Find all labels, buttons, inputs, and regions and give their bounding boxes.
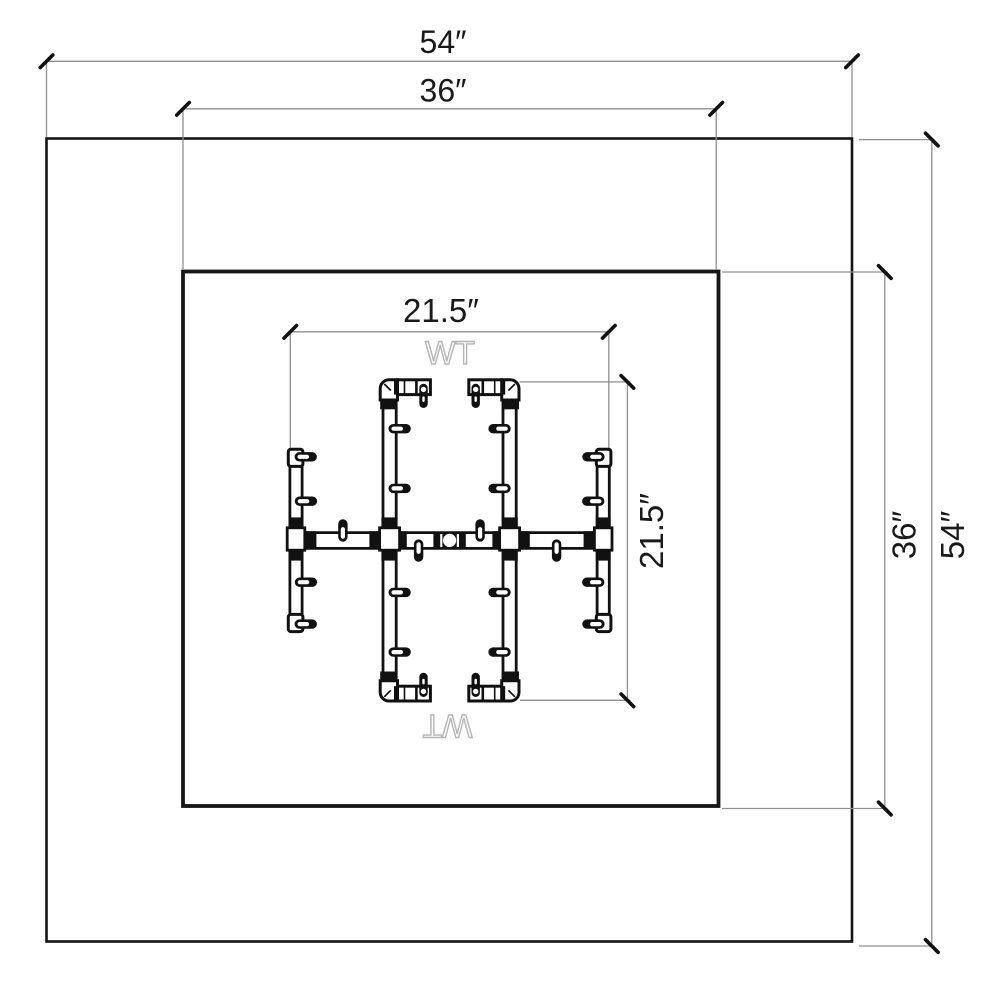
far-right bar (mirrored) <box>582 449 612 631</box>
dim 36 right: ticks <box>879 266 892 279</box>
dim 36 top: dimension line <box>183 108 716 110</box>
right vertical pipe (mirrored) <box>488 397 519 684</box>
dim 36 top: ticks <box>177 103 190 116</box>
dim 54 top: dimension line <box>47 60 853 62</box>
svg-text:36″: 36″ <box>886 510 923 559</box>
dim 21.5 right: extension lines <box>520 381 631 383</box>
svg-text:WT: WT <box>425 335 475 371</box>
dim 54 top: ticks <box>40 55 53 68</box>
dim 36 top: extension lines <box>182 110 184 270</box>
svg-text:WT: WT <box>423 708 473 744</box>
dim 54 right: extension lines <box>859 139 935 141</box>
inner square 36in <box>183 272 719 807</box>
dim 54 right: dimension line <box>931 140 933 947</box>
left vertical pipe <box>380 397 411 684</box>
center inlet fitting <box>442 532 456 549</box>
svg-text:54″: 54″ <box>420 24 467 60</box>
header bottom-right <box>469 672 519 702</box>
burner cross pipe <box>297 533 603 549</box>
header top-right <box>469 380 519 410</box>
svg-text:21.5″: 21.5″ <box>403 292 479 329</box>
outer square 54in <box>47 139 853 942</box>
dim 54 right: ticks <box>926 133 939 146</box>
dim 21.5 top: extension lines <box>289 332 291 449</box>
dim 21.5 top: dimension line <box>290 331 609 333</box>
dim 54 top: extension lines <box>46 62 48 138</box>
cross pipe jets <box>338 519 347 541</box>
dim 36 right: extension lines <box>722 271 888 273</box>
svg-text:54″: 54″ <box>934 510 971 559</box>
cross pipe couplings <box>305 531 594 549</box>
far-left bar <box>287 449 317 631</box>
header top-left <box>380 380 430 410</box>
header bottom-left <box>380 672 430 702</box>
dim 21.5 right: dimension line <box>626 382 628 700</box>
svg-text:36″: 36″ <box>420 73 467 109</box>
dim 21.5 top: ticks <box>284 326 297 339</box>
dim 21.5 right: ticks <box>621 376 634 389</box>
dim 36 right: dimension line <box>884 272 886 809</box>
svg-text:21.5″: 21.5″ <box>633 493 670 569</box>
